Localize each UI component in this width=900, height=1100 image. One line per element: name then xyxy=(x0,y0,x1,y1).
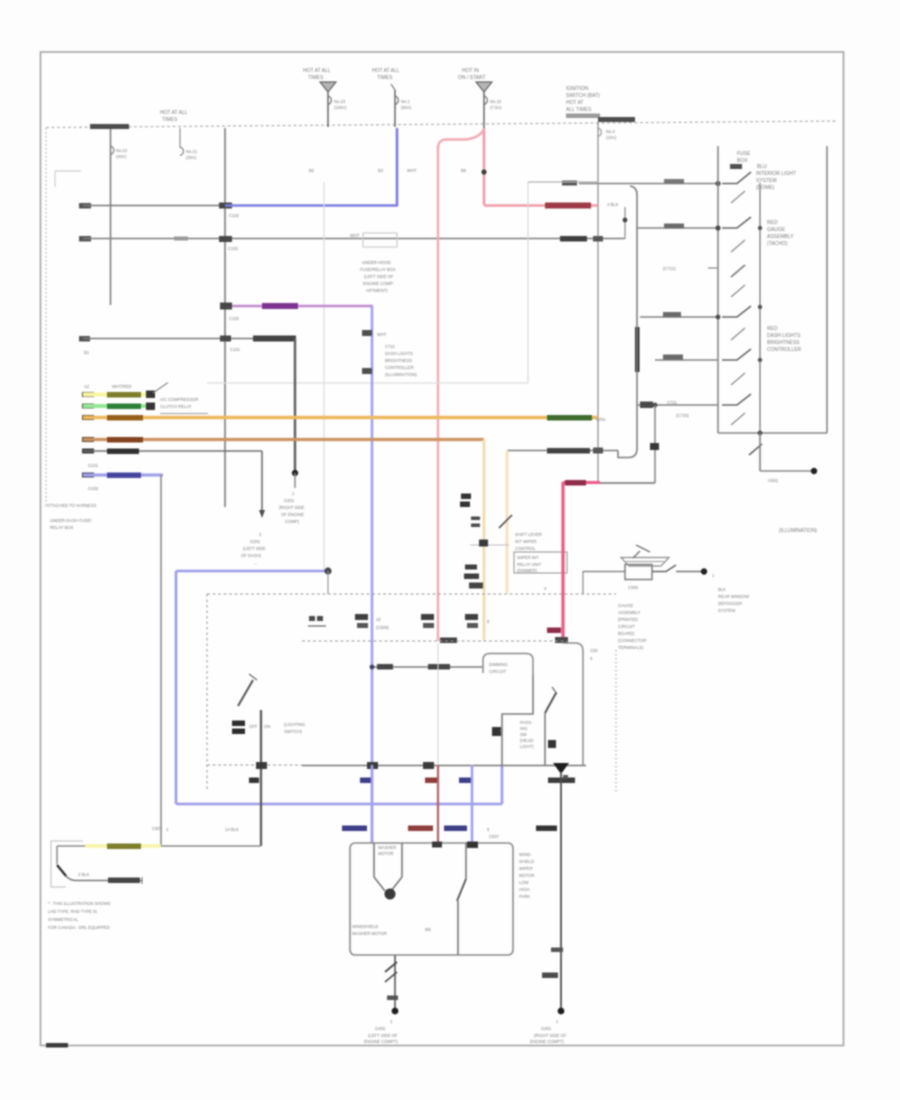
wire red long vertical x=438 xyxy=(437,146,439,641)
connector arrow row y=183 xyxy=(730,164,742,169)
svg-text:(LEFT SIDE OF: (LEFT SIDE OF xyxy=(364,274,394,279)
svg-text:B: B xyxy=(500,728,503,733)
wire row y=238 xyxy=(79,236,91,242)
svg-text:BOX: BOX xyxy=(737,158,748,164)
svg-text:MOTOR: MOTOR xyxy=(519,873,535,878)
wire labels below instrument box xyxy=(360,778,371,784)
svg-text:OF ENGINE: OF ENGINE xyxy=(281,512,304,517)
svg-text:B6: B6 xyxy=(461,168,467,173)
svg-text:CONTROLLER: CONTROLLER xyxy=(385,365,414,370)
svg-text:(DIMMER): (DIMMER) xyxy=(517,568,537,573)
dashed inner line y=641 xyxy=(302,640,567,642)
wire green row y=406 xyxy=(82,404,94,409)
svg-text:HOT AT: HOT AT xyxy=(566,100,584,106)
svg-text:No.22: No.22 xyxy=(116,148,128,153)
svg-text:G402: G402 xyxy=(375,1026,386,1031)
wire tan vertical x=484 xyxy=(483,440,486,641)
wire y=450 from tan junction xyxy=(507,450,618,452)
page number tab xyxy=(46,1043,68,1048)
svg-text:UNDER-HOOD: UNDER-HOOD xyxy=(362,260,391,265)
svg-text:No.21: No.21 xyxy=(186,149,198,154)
vertical wire x=637 xyxy=(618,186,637,458)
svg-text:FOR CANADA : DRL EQUIPPED: FOR CANADA : DRL EQUIPPED xyxy=(48,925,110,930)
svg-text:ENGINE COMPT): ENGINE COMPT) xyxy=(530,1039,564,1044)
dashed instrument box left x=207 xyxy=(206,594,208,790)
svg-text:WHT: WHT xyxy=(407,168,417,173)
wire row y=360 xyxy=(655,359,718,361)
right column left vertical x=718 xyxy=(717,146,719,433)
svg-text:4 BLK: 4 BLK xyxy=(607,202,619,207)
svg-text:WHT: WHT xyxy=(350,233,360,238)
svg-text:(LEFT SIDE: (LEFT SIDE xyxy=(243,546,266,551)
svg-text:(LEFT SIDE OF: (LEFT SIDE OF xyxy=(368,1033,398,1038)
svg-text:(100A): (100A) xyxy=(334,105,347,110)
svg-text:RED: RED xyxy=(767,220,778,226)
svg-text:(DOME): (DOME) xyxy=(756,185,775,191)
svg-text:WIPER: WIPER xyxy=(519,866,533,871)
wire brown row y=439 xyxy=(82,437,94,442)
svg-text:HOT AT ALL: HOT AT ALL xyxy=(372,68,400,74)
svg-text:WASHER: WASHER xyxy=(378,845,396,850)
wire row y=228 xyxy=(637,227,718,229)
connector C506 marks below dashed line xyxy=(309,616,315,621)
svg-text:SYSTEM: SYSTEM xyxy=(756,178,777,184)
wire gray row y=451 to ground G201 xyxy=(82,449,94,454)
ground lead G402 xyxy=(394,955,396,1011)
svg-text:(CONNECTOR: (CONNECTOR xyxy=(618,638,646,643)
svg-text:INT WIPER: INT WIPER xyxy=(515,539,537,544)
svg-text:G401: G401 xyxy=(541,1026,552,1031)
svg-text:G501: G501 xyxy=(768,478,779,483)
svg-text:(PRINTED: (PRINTED xyxy=(618,617,638,622)
svg-text:SHIELD: SHIELD xyxy=(519,859,534,864)
svg-text:CONTROLLER: CONTROLLER xyxy=(767,347,802,353)
svg-text:MOTOR: MOTOR xyxy=(378,851,394,856)
svg-text:ING: ING xyxy=(520,726,527,731)
svg-text:HOT AT ALL: HOT AT ALL xyxy=(303,68,331,74)
wire row y=205 left gray xyxy=(79,203,91,209)
svg-text:* : THIS ILLUSTRATION SHOWS: * : THIS ILLUSTRATION SHOWS xyxy=(48,901,111,906)
under-hood fuse/relay box dashed left edge xyxy=(45,128,47,505)
svg-text:C102: C102 xyxy=(228,246,239,251)
sensor trapezoid above xyxy=(621,558,669,567)
faint inner box vertical x=324 xyxy=(323,182,325,571)
svg-text:OFF: OFF xyxy=(249,724,258,729)
vertical wire x=225 xyxy=(224,128,226,507)
svg-text:SYMMETRICAL: SYMMETRICAL xyxy=(48,917,79,922)
svg-text:SYSTEM: SYSTEM xyxy=(718,608,736,613)
svg-text:GAUGE: GAUGE xyxy=(618,603,633,608)
svg-text:REAR WINDOW: REAR WINDOW xyxy=(718,594,749,599)
svg-text:RED: RED xyxy=(767,326,778,332)
svg-text:PASS-: PASS- xyxy=(520,720,533,725)
svg-text:PARK: PARK xyxy=(519,894,530,899)
wire color labels above washer box xyxy=(342,826,367,832)
right column right vertical x=827 xyxy=(826,146,828,433)
svg-text:SWITCH): SWITCH) xyxy=(284,729,303,734)
svg-text:WASHER MOTOR: WASHER MOTOR xyxy=(352,931,387,936)
ground lead G501 xyxy=(749,444,762,455)
svg-text:C101: C101 xyxy=(230,347,241,352)
svg-text:A2: A2 xyxy=(84,384,90,389)
wire gray y=571 right of dot xyxy=(583,571,625,573)
svg-text:IGNITION: IGNITION xyxy=(566,86,589,92)
washer motor box xyxy=(350,843,513,955)
fuse F4 (x=598) xyxy=(597,122,599,483)
svg-text:CONTROL: CONTROL xyxy=(515,546,536,551)
dark label on dashed line left of tan xyxy=(440,638,457,644)
wire row y=338 xyxy=(79,336,90,342)
wire dark x=561 to ground xyxy=(560,772,562,1012)
svg-text:C507: C507 xyxy=(489,834,500,839)
triangle junction at x=561 xyxy=(553,763,569,774)
ground lead G401 xyxy=(551,948,563,953)
svg-text:SW: SW xyxy=(520,732,527,737)
svg-text:2 BLK: 2 BLK xyxy=(78,872,90,877)
svg-text:WIND-: WIND- xyxy=(519,852,532,857)
svg-text:(LIGHTING: (LIGHTING xyxy=(284,722,305,727)
svg-text:BRIGHTNESS: BRIGHTNESS xyxy=(767,340,800,346)
svg-text:ALL TIMES: ALL TIMES xyxy=(566,107,592,113)
svg-text:RELAY UNIT: RELAY UNIT xyxy=(517,562,542,567)
wire blue x=372 below box xyxy=(371,765,374,843)
connector label stack on tan wire xyxy=(465,565,477,570)
svg-text:BLU: BLU xyxy=(757,164,767,170)
svg-text:LOW: LOW xyxy=(519,880,529,885)
svg-text:UNDER-DASH FUSE/: UNDER-DASH FUSE/ xyxy=(50,518,92,523)
svg-text:(7.5A): (7.5A) xyxy=(490,105,502,110)
svg-text:C506: C506 xyxy=(628,585,639,590)
svg-text:FUSE: FUSE xyxy=(737,151,751,157)
svg-text:ASSEMBLY: ASSEMBLY xyxy=(618,610,640,615)
svg-text:ON / START: ON / START xyxy=(458,75,486,81)
connector ticks on periwinkle wire xyxy=(362,330,372,336)
svg-text:RELAY BOX: RELAY BOX xyxy=(50,525,74,530)
svg-text:SWITCH (BAT): SWITCH (BAT) xyxy=(566,93,600,99)
svg-text:WHT/RED: WHT/RED xyxy=(112,384,132,389)
faint inner box vertical x=528 xyxy=(527,182,529,383)
svg-text:No.23: No.23 xyxy=(334,99,346,104)
fuse box inner corner tick xyxy=(55,170,81,172)
svg-text:B3: B3 xyxy=(378,168,384,173)
svg-text:(C721): (C721) xyxy=(663,266,676,271)
svg-text:(50A): (50A) xyxy=(401,105,412,110)
svg-text:ASSEMBLY: ASSEMBLY xyxy=(767,234,794,240)
extra connector chevrons in column xyxy=(731,191,745,203)
svg-text:(TACHO): (TACHO) xyxy=(767,241,788,247)
under-hood fuse/relay box dashed top edge xyxy=(46,121,838,128)
connector blobs for yellow/green rows xyxy=(146,391,155,399)
svg-text:HOT AT ALL: HOT AT ALL xyxy=(160,110,188,116)
relay box small (x=363..397) xyxy=(363,233,397,247)
svg-text:BRIGHTNESS: BRIGHTNESS xyxy=(385,358,412,363)
svg-text:TIMES: TIMES xyxy=(162,117,178,123)
faint inner box horizontal y=182 xyxy=(528,181,598,183)
svg-text:G102: G102 xyxy=(88,486,99,491)
svg-text:(10A): (10A) xyxy=(606,135,617,140)
svg-text:C102: C102 xyxy=(229,213,240,218)
svg-text:HIGH: HIGH xyxy=(519,887,529,892)
svg-text:G201: G201 xyxy=(250,539,261,544)
connector pin vertical x=760 xyxy=(759,183,761,471)
svg-text:(C506): (C506) xyxy=(376,625,389,630)
capacitor stub x=625 xyxy=(624,207,626,239)
svg-text:DASH LIGHTS: DASH LIGHTS xyxy=(385,351,413,356)
instrument box bottom y=765 xyxy=(207,764,302,766)
svg-text:ENGINE COMPT): ENGINE COMPT) xyxy=(364,1039,398,1044)
svg-text:TIMES: TIMES xyxy=(308,75,324,81)
wire blue bottom y=804 xyxy=(176,803,502,806)
long gray vertical x=161 xyxy=(160,475,162,846)
wire row y=317 xyxy=(640,316,718,318)
svg-text:(30A): (30A) xyxy=(186,155,197,160)
svg-text:C721: C721 xyxy=(385,344,396,349)
svg-text:No.1: No.1 xyxy=(401,99,411,104)
inner box right edge with notch xyxy=(563,643,583,765)
svg-text:BOARD): BOARD) xyxy=(618,631,635,636)
svg-text:C721: C721 xyxy=(667,400,678,405)
wire row y=405 xyxy=(637,404,718,406)
wire red vertical below fuse F3 xyxy=(483,128,486,205)
svg-text:(ILLUMINATION): (ILLUMINATION) xyxy=(779,528,817,534)
wire blue top y=571 xyxy=(176,570,328,573)
wire blue vertical x=502 xyxy=(501,765,504,804)
svg-text:BLK: BLK xyxy=(718,587,726,592)
faint inner box horizontal y=383 xyxy=(207,382,528,384)
svg-text:(HEAD-: (HEAD- xyxy=(520,738,535,743)
brake fluid switch box xyxy=(625,565,652,580)
dashed instrument box top y=594 xyxy=(207,593,616,595)
svg-text:(C720): (C720) xyxy=(676,413,689,418)
svg-text:HOT IN: HOT IN xyxy=(462,68,479,74)
dimmer feed wire y=667 xyxy=(372,666,483,668)
svg-text:(RIGHT SIDE OF: (RIGHT SIDE OF xyxy=(534,1033,567,1038)
wire tan vertical x=507 xyxy=(506,451,509,594)
svg-text:GRN: GRN xyxy=(596,417,605,422)
junction where red wire enters xyxy=(432,842,442,848)
svg-text:...: ... xyxy=(254,560,258,565)
dimmer switch lever (right) xyxy=(545,693,556,713)
svg-text:WINDSHIELD: WINDSHIELD xyxy=(352,924,378,929)
svg-text:B2: B2 xyxy=(309,168,315,173)
switch output x=261 xyxy=(260,710,262,846)
svg-text:B1: B1 xyxy=(84,350,90,355)
svg-text:WIPER INT: WIPER INT xyxy=(517,555,539,560)
dotted vertical x=616 xyxy=(615,650,617,793)
svg-text:A/C COMPRESSOR: A/C COMPRESSOR xyxy=(160,397,198,402)
svg-text:G101: G101 xyxy=(88,463,99,468)
svg-text:C50: C50 xyxy=(590,648,598,653)
wire red curve to x=438 xyxy=(438,129,484,148)
thick wire x=295 down to ground xyxy=(294,338,296,473)
vertical wire x=655 xyxy=(654,405,656,483)
svg-text:WHT: WHT xyxy=(377,332,387,337)
wire red horizontal y=205 xyxy=(484,204,598,207)
wire blue row y=475 xyxy=(82,473,94,478)
column bottom wire y=433 xyxy=(718,432,827,434)
svg-text:SHIFT LEVER: SHIFT LEVER xyxy=(515,532,542,537)
svg-text:M5: M5 xyxy=(425,927,431,932)
wire orange long row y=417 xyxy=(82,415,94,420)
svg-text:16: 16 xyxy=(376,617,381,622)
svg-text:14 BLK: 14 BLK xyxy=(225,827,239,832)
svg-text:COMP): COMP) xyxy=(285,519,300,524)
svg-text:DIMMING: DIMMING xyxy=(489,662,508,667)
wire y=483 xyxy=(598,482,655,484)
wire periwinkle long vertical x=372 xyxy=(371,306,374,843)
svg-text:CIRCUIT: CIRCUIT xyxy=(489,669,506,674)
svg-text:LHD TYPE. RHD TYPE IS: LHD TYPE. RHD TYPE IS xyxy=(48,909,97,914)
fuse F22 (x=112) xyxy=(110,129,112,305)
svg-text:C507: C507 xyxy=(152,826,163,831)
wire purple horizontal y=306 xyxy=(225,305,373,308)
svg-text:OF DASH): OF DASH) xyxy=(241,553,262,558)
connector marks on tan wires xyxy=(471,517,480,521)
svg-text:FUSE/RELAY BOX: FUSE/RELAY BOX xyxy=(360,267,396,272)
svg-text:(40A): (40A) xyxy=(116,154,127,159)
svg-text:GAUGE: GAUGE xyxy=(767,227,786,233)
wire pink bold horizontal y=482 xyxy=(563,481,600,484)
svg-text:: ATTACHED TO HARNESS: : ATTACHED TO HARNESS xyxy=(44,503,96,508)
wire blue x=472 below box xyxy=(471,765,474,843)
svg-text:INTERIOR LIGHT: INTERIOR LIGHT xyxy=(756,171,796,177)
svg-text:CIRCUIT: CIRCUIT xyxy=(618,624,635,629)
relay output wire xyxy=(502,675,533,765)
washer switch assembly bottom-left xyxy=(51,841,83,887)
wire x=438 below box xyxy=(437,643,439,765)
svg-text:TERMINALS): TERMINALS) xyxy=(618,645,644,650)
headlight switch lever (left) xyxy=(238,680,253,706)
svg-text:G201: G201 xyxy=(284,498,295,503)
connector arrow and dot right of box xyxy=(652,565,676,572)
svg-text:No.4: No.4 xyxy=(606,129,616,134)
svg-text:ON: ON xyxy=(264,724,270,729)
dimming relay dome xyxy=(483,654,533,676)
wire blue horizontal y=205 xyxy=(225,204,398,207)
wiper switch inside box xyxy=(465,843,467,879)
svg-text:(ILLUMINATION): (ILLUMINATION) xyxy=(385,372,417,377)
svg-text:DASH LIGHTS: DASH LIGHTS xyxy=(767,333,801,339)
wire pink bold vertical x=563 xyxy=(561,482,564,641)
svg-text:ARTMENT): ARTMENT) xyxy=(366,288,388,293)
svg-text:CLUTCH RELAY: CLUTCH RELAY xyxy=(160,404,192,409)
svg-text:TIMES: TIMES xyxy=(377,75,393,81)
fuse F21 stub (x=180) xyxy=(179,128,181,148)
wire row y=183 to right column xyxy=(562,181,577,186)
svg-text:ENGINE COMP-: ENGINE COMP- xyxy=(363,281,395,286)
svg-text:DEFOGGER: DEFOGGER xyxy=(718,601,742,606)
svg-text:(RIGHT SIDE: (RIGHT SIDE xyxy=(279,505,304,510)
wire blue vertical x=397 xyxy=(396,128,399,206)
svg-text:No.15: No.15 xyxy=(490,99,502,104)
wire yellow row y=394 xyxy=(82,392,94,397)
svg-text:LIGHT): LIGHT) xyxy=(520,744,534,749)
combination switch blue outline left vertical x=176 xyxy=(175,571,178,804)
heavy bus bar x=637 xyxy=(635,327,640,372)
svg-text:C102: C102 xyxy=(229,316,240,321)
switch contact labels xyxy=(232,721,245,727)
